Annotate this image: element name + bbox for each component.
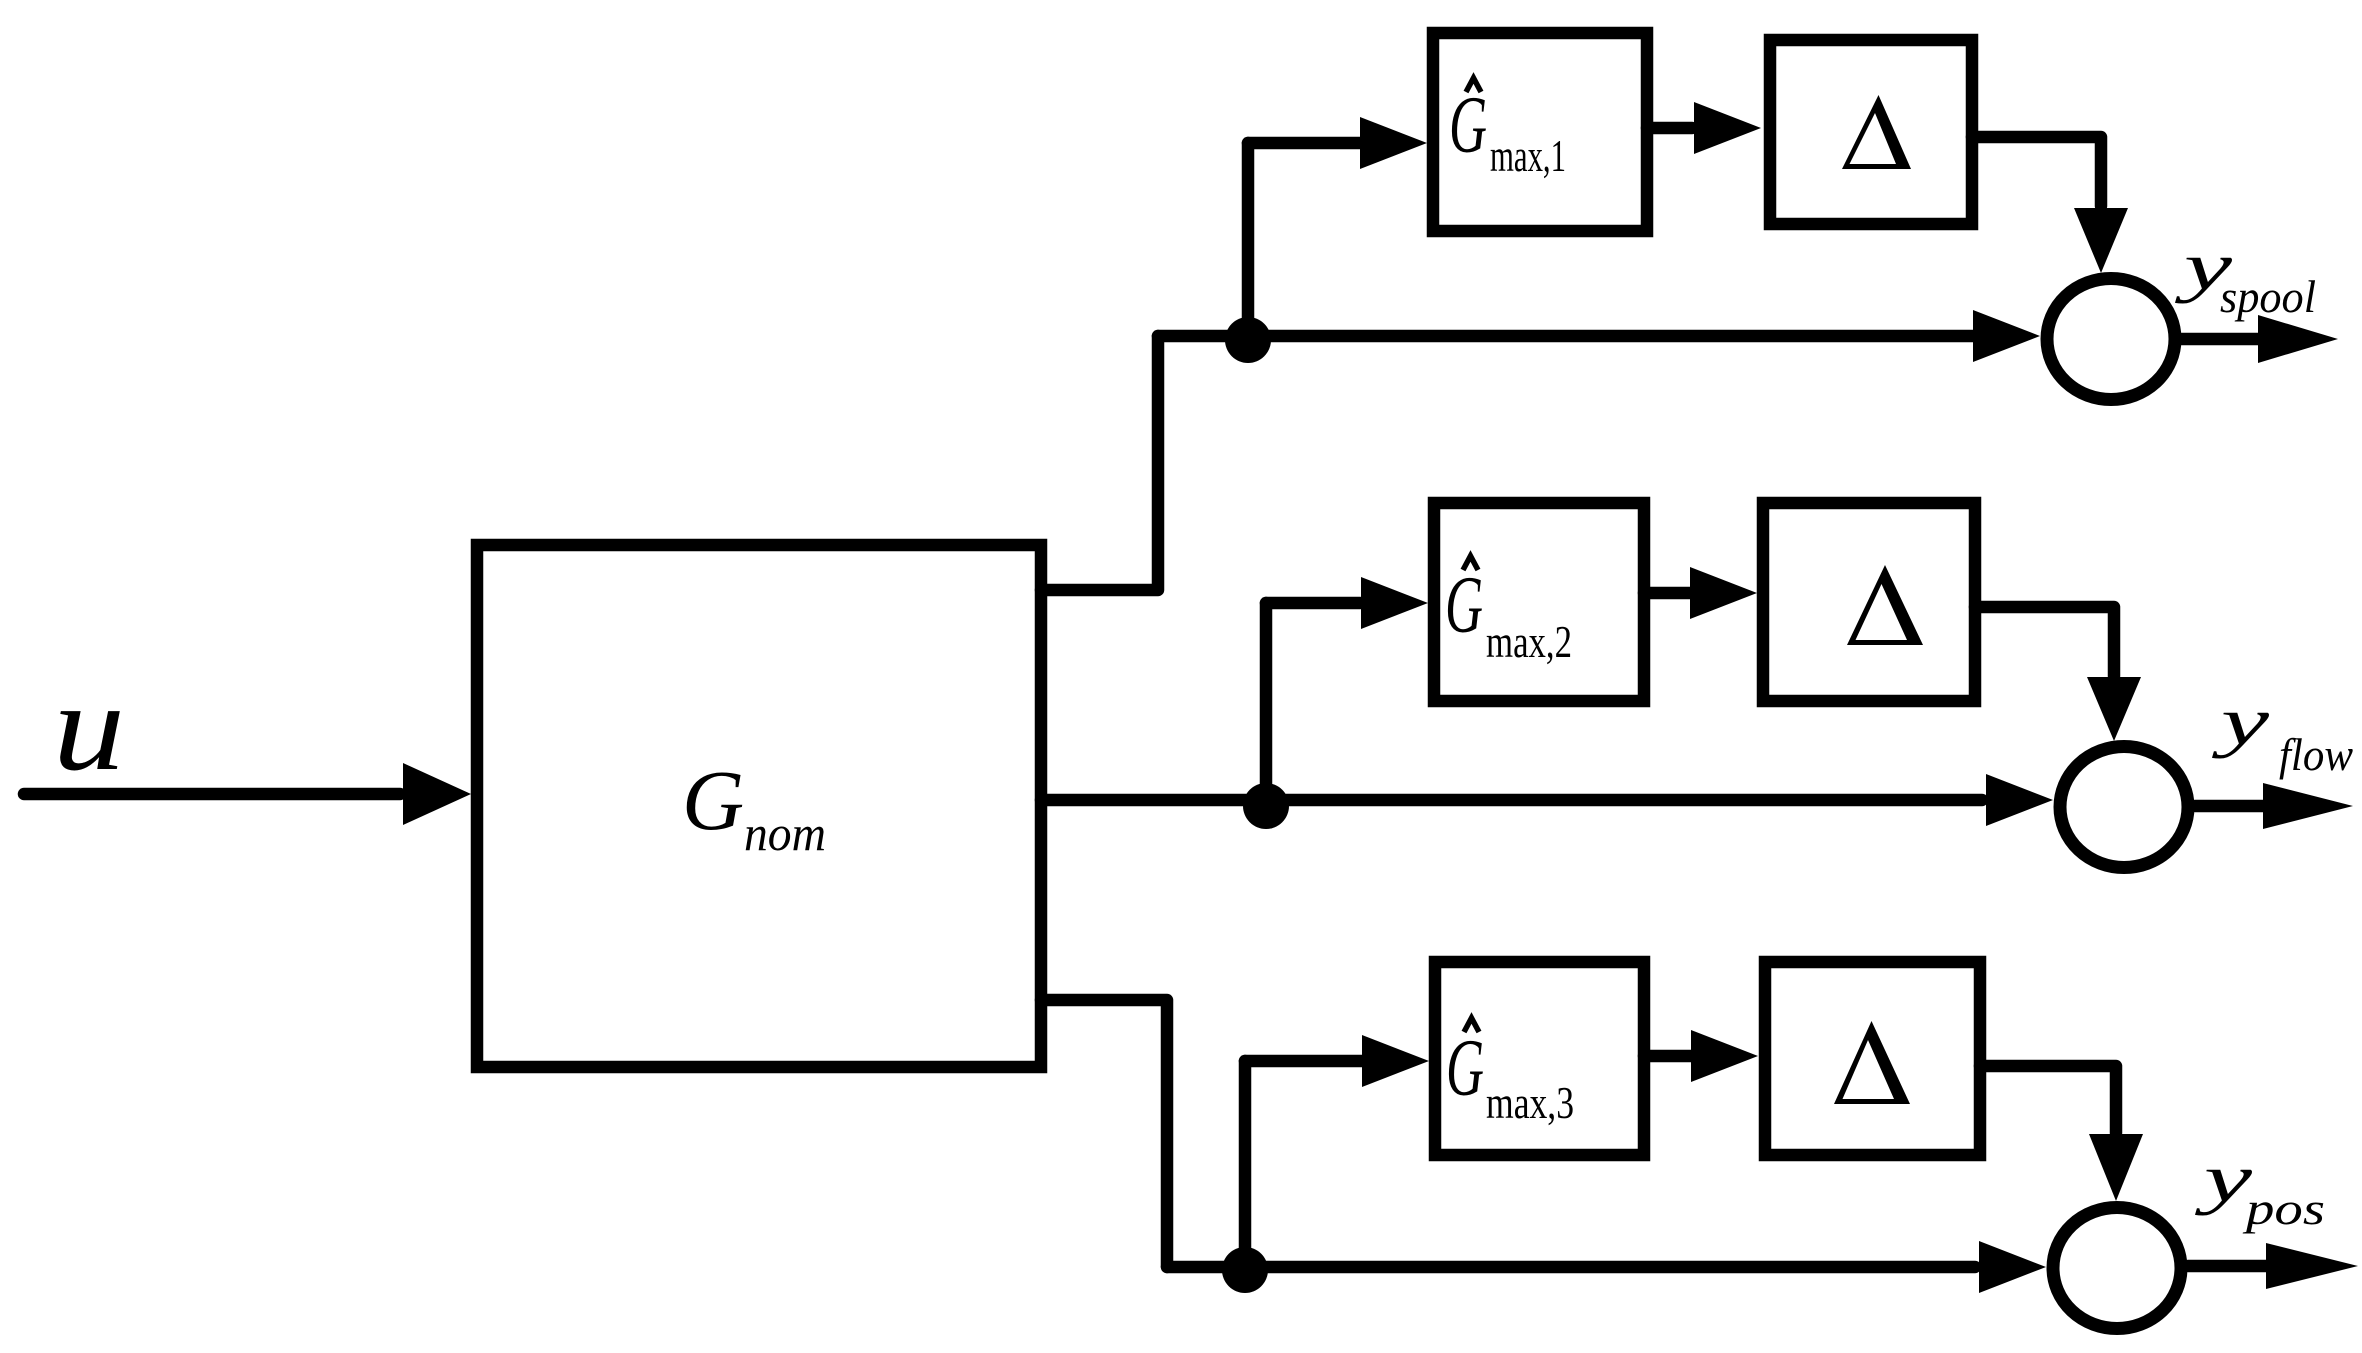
block Delta3 [1765,962,1980,1155]
arrowhead row3 main into summer 3 [1979,1241,2046,1293]
arrowhead row3 branch into Gmax3 [1362,1035,1429,1087]
summer circle row2 [2060,747,2188,868]
wire row1 branch riser from junction [1242,143,1255,339]
wire row1 branch into Gmax1 [1248,137,1360,150]
wire input u shaft [24,788,400,801]
block Gmax3 [1435,962,1644,1155]
wire row1 stub and riser from G_nom [1041,336,1158,590]
svg-text:max,2: max,2 [1486,616,1572,667]
arrowhead input u into G_nom [403,763,471,825]
arrowhead row1 down into summer 1 [2074,208,2128,273]
svg-text:y: y [2194,1140,2253,1216]
wire row2 branch riser from junction [1260,603,1273,804]
wire row3 Delta3 output [1980,1066,2116,1133]
arrowhead row3 down into summer 3 [2089,1134,2143,1201]
wire row2 Delta2 output [1975,607,2114,676]
arrowhead row3 into Delta3 [1691,1030,1758,1082]
arrowhead row3 output y_pos [2266,1243,2358,1289]
svg-text:G: G [1445,559,1483,650]
wire row3 branch riser from junction [1239,1061,1252,1269]
wire row2 main line from G_nom [1041,794,1982,807]
block Gmax2 [1434,503,1644,701]
arrowhead row1 into Delta1 [1694,102,1761,154]
svg-text:G: G [682,752,744,848]
wire row2 Gmax2 to Delta2 [1644,587,1690,600]
wire row1 output from summer [2182,333,2262,346]
svg-text:max,1: max,1 [1490,130,1566,181]
wire row2 output from summer [2195,800,2263,813]
junction dot row3 [1222,1247,1268,1293]
arrowhead row2 branch into Gmax2 [1361,577,1428,629]
wire row2 branch into Gmax2 [1266,597,1360,610]
junction dot row2 [1243,783,1289,829]
svg-text:spool: spool [2220,272,2316,322]
svg-text:u: u [53,658,125,797]
junction dot row1 [1225,317,1271,363]
arrowhead row2 output y_flow [2263,783,2353,829]
svg-text:max,3: max,3 [1486,1077,1574,1128]
label Delta2 [1847,565,1923,645]
wire row1 Delta1 output [1972,137,2101,206]
summer circle row3 [2053,1208,2181,1329]
wire row3 stub and riser from G_nom [1041,1000,1167,1267]
wire row3 branch into Gmax3 [1245,1055,1362,1068]
wire row3 output from summer [2188,1260,2266,1273]
block G_nom [477,545,1041,1067]
block Delta1 [1770,40,1972,224]
arrowhead row2 main into summer 2 [1986,774,2053,826]
label Delta1 [1842,95,1911,169]
arrowhead row2 down into summer 2 [2087,677,2141,741]
label Delta3 [1834,1021,1910,1104]
block Delta2 [1763,503,1975,701]
arrowhead row2 into Delta2 [1690,567,1757,619]
svg-text:y: y [2211,683,2270,759]
arrowhead row1 branch into Gmax1 [1360,117,1427,169]
summer circle row1 [2047,279,2175,400]
block Gmax1 [1433,33,1647,231]
wire row3 Gmax3 to Delta3 [1644,1050,1691,1063]
arrowhead row1 output y_spool [2258,315,2338,363]
wire row3 main line [1167,1261,1975,1274]
arrowhead row1 main into summer 1 [1973,310,2040,362]
wire row1 main line [1158,330,1976,343]
svg-text:pos: pos [2242,1184,2325,1234]
svg-text:G: G [1446,1022,1484,1113]
wire row1 Gmax1 to Delta1 [1647,122,1692,135]
svg-text:nom: nom [744,805,826,861]
svg-text:flow: flow [2279,730,2353,780]
